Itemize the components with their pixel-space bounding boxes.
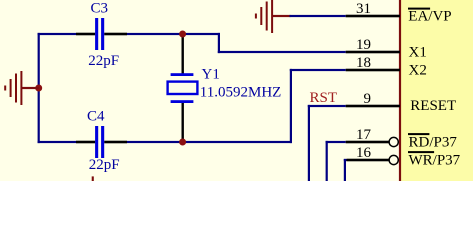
wire P16 riser vertical <box>344 159 346 181</box>
svg-text:X2: X2 <box>409 63 427 79</box>
capacitor C4 pin right (black) <box>104 141 127 144</box>
svg-text:19: 19 <box>356 37 371 53</box>
capacitor C4 plates <box>95 126 104 158</box>
capacitor C3 plates <box>95 18 104 50</box>
wire P16 horizontal stub <box>344 159 347 161</box>
svg-text:X1: X1 <box>409 45 427 61</box>
svg-text:Y1: Y1 <box>202 67 220 83</box>
wire top segment C3 to X1 riser <box>127 33 220 35</box>
svg-text:16: 16 <box>356 145 372 161</box>
wire bottom segment C4 to X2 riser <box>127 141 292 143</box>
junction dot at left ground <box>35 85 42 92</box>
pin 9 (RESET) black pin line <box>346 105 400 108</box>
capacitor C3 pin right (black) <box>104 33 127 36</box>
svg-text:C4: C4 <box>87 109 105 125</box>
crystal Y1 top pin (black) <box>182 33 184 75</box>
crystal Y1 electrodes and body <box>168 73 198 103</box>
junction dot at C4 / crystal bottom <box>179 139 186 146</box>
wire bottom segment left of C4 <box>38 141 76 143</box>
svg-text:RST: RST <box>310 90 338 106</box>
wire X2 riser vertical <box>290 69 292 143</box>
svg-text:RD/P37: RD/P37 <box>409 134 458 150</box>
pin name RD/P37 with overline on RD <box>408 133 457 150</box>
svg-text:22pF: 22pF <box>89 157 120 173</box>
pin 16 (WR/P37) black pin line <box>347 159 389 162</box>
wire P17 horizontal stub <box>326 141 346 143</box>
svg-text:WR/P37: WR/P37 <box>409 152 461 168</box>
crystal Y1 bottom pin (black) <box>182 102 184 142</box>
wire P17 riser vertical <box>326 141 328 181</box>
pin 17 inversion bubble <box>389 137 398 146</box>
pin 18 (X2) black pin line <box>346 69 400 72</box>
junction dot at C3 / crystal top <box>179 31 186 38</box>
pin name WR/P37 with overline on WR <box>408 151 461 168</box>
op-amp U1 IC body (8051 fragment, right side) <box>399 0 473 181</box>
pin 19 (X1) black pin line <box>346 51 400 54</box>
wire top segment left of C3 <box>38 33 76 35</box>
ground symbol left <box>4 71 38 105</box>
capacitor C4 pin left (black) <box>76 141 95 144</box>
svg-text:9: 9 <box>364 91 372 107</box>
wire row pin18 horizontal <box>290 69 346 71</box>
svg-text:RESET: RESET <box>410 98 456 114</box>
svg-text:18: 18 <box>356 55 371 71</box>
svg-text:11.0592MHZ: 11.0592MHZ <box>200 85 282 101</box>
svg-text:C3: C3 <box>91 1 109 17</box>
svg-text:EA/VP: EA/VP <box>408 9 451 25</box>
pin name EA/VP with overline on EA <box>408 8 452 25</box>
svg-text:31: 31 <box>356 1 371 17</box>
wire row pin19 horizontal <box>218 51 346 53</box>
pin 16 inversion bubble <box>389 155 398 164</box>
wire row pin31 horizontal <box>290 15 346 17</box>
ground symbol top right <box>255 0 291 33</box>
svg-text:17: 17 <box>356 127 372 143</box>
wire X1 riser vertical <box>218 33 220 53</box>
wire row pin9 horizontal <box>308 105 346 107</box>
power stub cropped at bottom left <box>92 176 94 181</box>
wire left vertical <box>38 33 40 143</box>
pin 31 (EA/VP) black pin line <box>346 15 400 18</box>
capacitor C3 pin left (black) <box>76 33 95 36</box>
pin 17 (RD/P37) black pin line <box>346 141 389 144</box>
wire RST riser vertical <box>308 105 310 181</box>
svg-text:22pF: 22pF <box>88 53 119 69</box>
